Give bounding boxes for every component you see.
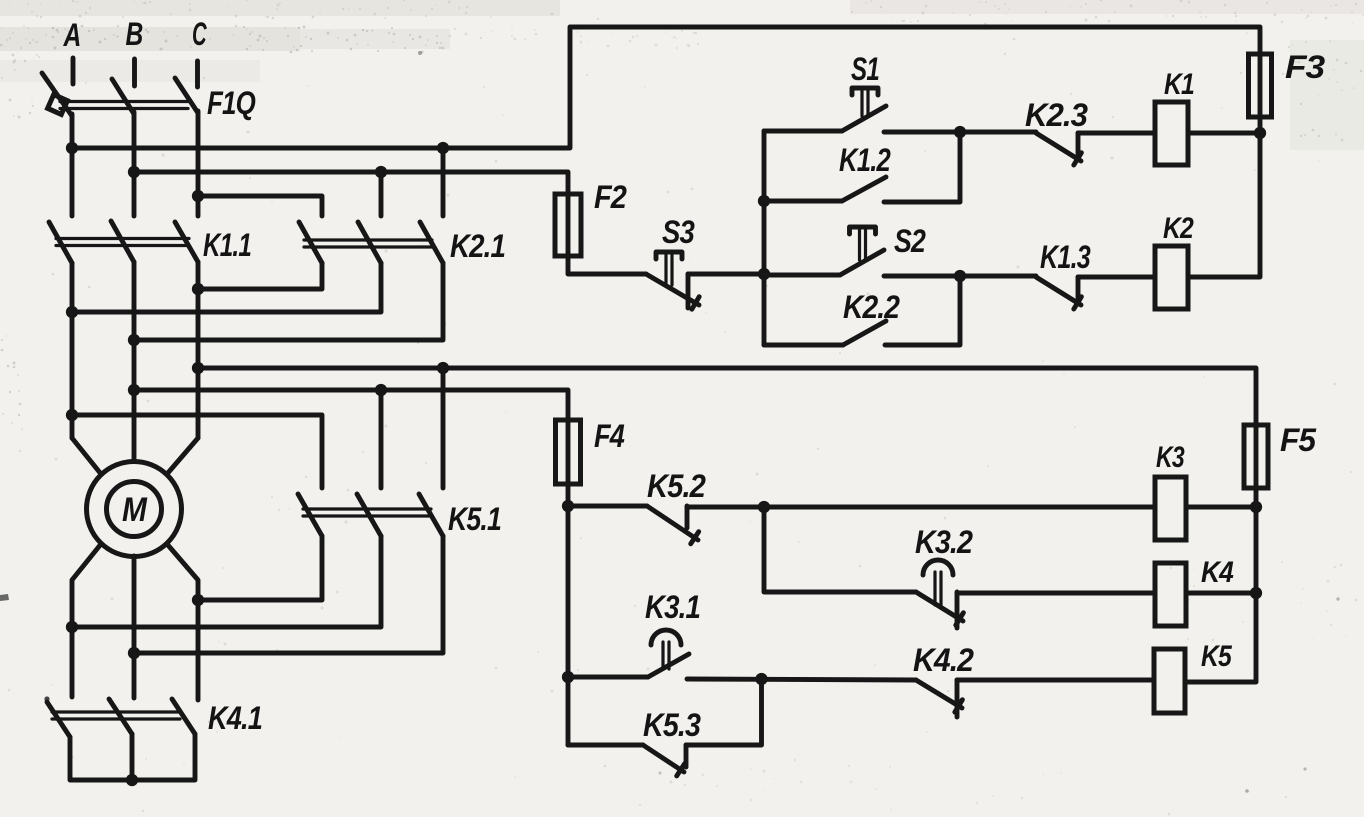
junction B line / K5.1 pole2 feed bbox=[375, 384, 387, 396]
contactor K1.1 pole B blade bbox=[111, 221, 134, 262]
node S1-K1.2 branch bbox=[758, 195, 770, 207]
wire K4 to right rail bbox=[1186, 591, 1256, 596]
contactor K5.1 linkage bar bbox=[303, 509, 431, 516]
wire branch node vertical bbox=[762, 131, 767, 345]
phase label C bbox=[192, 16, 207, 52]
wire K4.1 pole B bottom bbox=[130, 734, 135, 780]
junction K5.1 pole3 / motor B bbox=[128, 647, 140, 659]
svg-text:K3.1: K3.1 bbox=[645, 589, 700, 625]
pushbutton S2 blade (NO) bbox=[840, 250, 884, 275]
contactor K4.1 pole A blade bbox=[47, 702, 70, 737]
label F2 bbox=[594, 179, 627, 215]
disconnect switch F1Q linkage bar bbox=[60, 102, 188, 109]
junction C / lower bus bbox=[192, 362, 204, 374]
label S2 bbox=[894, 223, 926, 259]
contact K3.2 fixed stub bbox=[955, 592, 960, 628]
wire K5.1 pole2 output to motor A bbox=[72, 536, 381, 627]
label K2 bbox=[1163, 212, 1194, 245]
motor M inner circle bbox=[107, 482, 162, 537]
phase A terminal lead bbox=[71, 58, 76, 84]
pushbutton S3 fixed stub bbox=[686, 274, 691, 308]
svg-text:F3: F3 bbox=[1285, 49, 1325, 85]
wire right rail down to K2 bbox=[1188, 117, 1260, 277]
wire K4.1 star bridge bbox=[70, 734, 195, 780]
contact K5.3 fixed stub bbox=[684, 745, 689, 767]
svg-text:F5: F5 bbox=[1280, 422, 1317, 458]
wire phase A bus to top rail bbox=[72, 27, 1260, 148]
svg-text:A: A bbox=[63, 17, 81, 53]
wire K5.1 pole3 output to motor B bbox=[134, 536, 443, 653]
coil K5 bbox=[1154, 649, 1185, 713]
label K3.1 bbox=[645, 589, 700, 625]
contact K4.2 blade (NC) bbox=[916, 680, 962, 712]
svg-text:B: B bbox=[126, 16, 143, 52]
wire node to K1.2 bbox=[764, 199, 842, 204]
junction S1 / K1.2 loop bbox=[954, 126, 966, 138]
wire S1 to K2.3 line bbox=[884, 130, 1036, 135]
label S3 bbox=[662, 214, 695, 250]
wire K5.1 pole2 top lead bbox=[379, 390, 384, 488]
junction K4.1 star point bbox=[126, 774, 138, 786]
contactor K4.1 linkage bar bbox=[52, 712, 180, 719]
svg-text:K2.3: K2.3 bbox=[1025, 97, 1088, 133]
wire lower rail down bbox=[1185, 488, 1256, 682]
contact K2.3 blade (NC) bbox=[1036, 133, 1081, 165]
fuse F5 bbox=[1244, 425, 1268, 488]
motor letter M bbox=[122, 491, 147, 529]
contact K3.2 blade (NC, time delay) bbox=[916, 592, 963, 625]
label F5 bbox=[1280, 422, 1317, 458]
svg-text:C: C bbox=[192, 16, 207, 52]
label K5 bbox=[1201, 640, 1233, 673]
contactor K5.1 pole3 blade bbox=[419, 494, 443, 536]
svg-text:K5: K5 bbox=[1201, 640, 1233, 673]
label K5.1 bbox=[448, 501, 501, 537]
label K5.3 bbox=[643, 707, 701, 743]
svg-text:K5.3: K5.3 bbox=[643, 707, 701, 743]
motor M outer circle bbox=[87, 462, 182, 557]
wire K1.2 to loop top bbox=[884, 132, 960, 202]
wire phase B down bbox=[132, 112, 137, 216]
wire phase B output down bbox=[132, 262, 137, 461]
contactor K2.1 pole1 blade bbox=[299, 222, 322, 263]
label K1.2 bbox=[839, 142, 891, 178]
wire K4.2 to coil K5 bbox=[957, 678, 1154, 683]
contactor K4.1 pole B blade bbox=[109, 699, 132, 734]
phase label A bbox=[63, 17, 81, 53]
contact K5.3 blade (NC) bbox=[643, 745, 685, 776]
contactor K2.1 pole3 blade bbox=[420, 222, 443, 263]
contactor K4.1 pole C blade bbox=[172, 699, 195, 734]
svg-text:K5.2: K5.2 bbox=[647, 468, 706, 504]
pushbutton S2 actuator bbox=[850, 227, 876, 260]
junction A bus / K2.1 pole3 feed bbox=[437, 142, 449, 154]
junction B / F4 feed bbox=[128, 384, 140, 396]
disconnect switch F1Q pole C blade bbox=[175, 78, 198, 113]
wire motor terminal C bottom bbox=[167, 544, 198, 700]
junction phase B bus bbox=[128, 166, 140, 178]
svg-text:S1: S1 bbox=[851, 51, 879, 87]
contact K2.3 fixed stub bbox=[1076, 133, 1081, 154]
wire K5.3 loop right bbox=[686, 679, 762, 745]
wire S3 to node bbox=[688, 272, 764, 277]
svg-text:S3: S3 bbox=[662, 214, 695, 250]
label F3 bbox=[1285, 49, 1325, 85]
wire K2.1 pole3 top lead bbox=[441, 148, 446, 216]
fuse F2 bbox=[555, 194, 581, 256]
wire K1 to right rail bbox=[1188, 131, 1260, 136]
contactor K5.1 pole1 blade bbox=[298, 494, 322, 536]
disconnect switch F1Q pole A blade bbox=[42, 73, 72, 116]
svg-text:K2: K2 bbox=[1163, 212, 1194, 245]
wire K5.2 to coil K3 bbox=[687, 505, 1155, 510]
svg-text:M: M bbox=[122, 491, 147, 529]
wire phase A output down bbox=[70, 263, 75, 438]
pushbutton S1 actuator bbox=[852, 88, 878, 116]
disconnect switch F1Q handle bbox=[48, 95, 68, 115]
wire phase A down bbox=[70, 114, 75, 216]
label K3 bbox=[1156, 441, 1185, 474]
wire K3.1 to K4.2 bbox=[687, 679, 916, 680]
phase label B bbox=[126, 16, 143, 52]
coil K3 bbox=[1155, 477, 1186, 540]
svg-text:K1.1: K1.1 bbox=[203, 227, 251, 263]
junction K5.1 pole1 / motor C bbox=[192, 594, 204, 606]
pushbutton S3 actuator bbox=[656, 252, 682, 285]
coil K4 bbox=[1155, 563, 1186, 626]
fuse F3 bbox=[1249, 54, 1272, 117]
wire K5.1 pole3 top lead bbox=[441, 368, 446, 488]
junction lower rail / K4 bbox=[1250, 587, 1262, 599]
label F4 bbox=[594, 418, 625, 454]
junction K2.1 pole3 / phase B bbox=[128, 334, 140, 346]
junction phase A bus bbox=[66, 142, 78, 154]
contact K5.2 blade (NC) bbox=[647, 506, 699, 544]
wire phase C output down bbox=[196, 262, 201, 438]
junction K2.1 pole1 / phase C bbox=[192, 283, 204, 295]
wire motor terminal A bottom bbox=[72, 544, 101, 697]
label K4.1 bbox=[208, 700, 262, 736]
junction A / lower feed bbox=[66, 409, 78, 421]
svg-text:K2.2: K2.2 bbox=[843, 289, 900, 325]
svg-text:K5.1: K5.1 bbox=[448, 501, 501, 537]
contactor K5.1 pole2 blade bbox=[357, 494, 381, 536]
contact K5.2 fixed stub bbox=[685, 506, 690, 528]
wire A to K5.1 pole1 bbox=[72, 415, 322, 488]
wire K2.1 pole3 output to phase B bbox=[134, 263, 443, 340]
contactor K1.1 pole C blade bbox=[175, 222, 198, 262]
contact K4.2 fixed stub bbox=[955, 680, 960, 717]
coil K1 bbox=[1155, 102, 1188, 165]
junction B bus / K2.1 pole2 feed bbox=[375, 166, 387, 178]
label K1.3 bbox=[1040, 239, 1091, 275]
wire phase C to K2.1 pole1 bbox=[198, 196, 322, 216]
svg-text:S2: S2 bbox=[894, 223, 926, 259]
wire S2 to K1.3 line bbox=[884, 274, 1036, 279]
junction K5.1 pole2 / motor A bbox=[66, 621, 78, 633]
wire node to K3.1 bbox=[568, 675, 648, 680]
node F4 / K5.2 line bbox=[562, 500, 574, 512]
junction S2 / K2.2 loop bbox=[954, 270, 966, 282]
svg-text:F1Q: F1Q bbox=[207, 85, 256, 121]
wire F4 down node vertical bbox=[566, 484, 571, 745]
wire B to fuse F4 bbox=[134, 390, 568, 420]
label S1 bbox=[851, 51, 879, 87]
svg-text:K1.2: K1.2 bbox=[839, 142, 891, 178]
label K4 bbox=[1201, 556, 1234, 589]
wire K3 to right rail bbox=[1186, 505, 1256, 510]
svg-text:K1.3: K1.3 bbox=[1040, 239, 1091, 275]
contact K1.3 fixed stub bbox=[1076, 277, 1081, 298]
junction lower bus / K5.1 pole3 bbox=[437, 362, 449, 374]
wire K2.3 to coil K1 bbox=[1078, 131, 1155, 136]
disconnect switch F1Q pole B blade bbox=[112, 79, 134, 114]
svg-text:K4.1: K4.1 bbox=[208, 700, 262, 736]
label K1 bbox=[1164, 68, 1194, 101]
junction K3.1 line / K5.3 loop bbox=[755, 673, 767, 685]
pushbutton S1 blade (NO) bbox=[842, 106, 886, 131]
contactor K1.1 linkage bar bbox=[56, 239, 189, 246]
svg-text:K4: K4 bbox=[1201, 556, 1234, 589]
wire node to K5.2 bbox=[568, 504, 647, 509]
contactor K2.1 pole2 blade bbox=[358, 222, 381, 263]
wire F2 to S3 bbox=[568, 256, 646, 274]
wire K1.3 to coil K2 bbox=[1078, 275, 1155, 280]
wire phase B bus to fuse F2 bbox=[134, 172, 568, 194]
wire K2.1 pole2 output to phase A bbox=[72, 263, 381, 312]
wire lower bus C to fuse F5 bbox=[198, 368, 1256, 425]
junction phase C tap bbox=[192, 190, 204, 202]
wire node to S1 bbox=[764, 129, 842, 134]
label F1Q bbox=[207, 85, 256, 121]
svg-text:F4: F4 bbox=[594, 418, 625, 454]
pushbutton S3 blade (NC) bbox=[646, 274, 699, 309]
node K3.1 line bbox=[562, 671, 574, 683]
junction lower rail / K3 bbox=[1250, 501, 1262, 513]
label K2.3 bbox=[1025, 97, 1088, 133]
wire K2.1 pole2 top lead bbox=[379, 172, 384, 216]
contactor K2.1 linkage bar bbox=[304, 240, 432, 247]
wire K5.3 loop left bbox=[568, 743, 643, 748]
svg-text:K1: K1 bbox=[1164, 68, 1194, 101]
wire phase C down bbox=[196, 111, 201, 216]
label K1.1 bbox=[203, 227, 251, 263]
contactor K1.1 pole A blade bbox=[49, 222, 72, 263]
coil K2 bbox=[1155, 246, 1188, 309]
junction right rail / K1 bbox=[1254, 127, 1266, 139]
contact K2.2 blade (NO) bbox=[843, 321, 886, 345]
label K3.2 bbox=[915, 524, 973, 560]
node S2 line bbox=[758, 268, 770, 280]
wire K2.1 pole1 output to phase C bbox=[198, 263, 322, 289]
phase B terminal lead bbox=[132, 59, 137, 86]
svg-text:K3.2: K3.2 bbox=[915, 524, 973, 560]
svg-text:K3: K3 bbox=[1156, 441, 1185, 474]
wire node to S2 bbox=[764, 273, 840, 278]
wire motor terminal A top bbox=[72, 438, 101, 474]
label K4.2 bbox=[913, 642, 974, 678]
label K2.2 bbox=[843, 289, 900, 325]
label K5.2 bbox=[647, 468, 706, 504]
wire K2.2 to loop top bbox=[885, 276, 960, 345]
junction K5.2 line / K3.2 branch bbox=[758, 501, 770, 513]
svg-text:K2.1: K2.1 bbox=[450, 228, 505, 264]
contact K1.2 blade (NO) bbox=[842, 177, 886, 201]
contact K3.1 blade (NO, time delay) bbox=[648, 654, 689, 677]
svg-text:K4.2: K4.2 bbox=[913, 642, 974, 678]
contact K3.1 delay symbol bbox=[651, 630, 681, 669]
wire K3.2 branch bbox=[764, 507, 916, 592]
svg-text:F2: F2 bbox=[594, 179, 627, 215]
phase C terminal lead bbox=[195, 61, 200, 87]
wire node to K2.2 bbox=[764, 343, 843, 348]
wire motor terminal B bottom bbox=[132, 556, 137, 698]
wire motor terminal C top bbox=[167, 438, 198, 474]
fuse F4 bbox=[556, 420, 581, 484]
contact K1.3 blade (NC) bbox=[1036, 277, 1081, 309]
label K2.1 bbox=[450, 228, 505, 264]
wire K5.1 pole1 output to motor C bbox=[198, 536, 322, 600]
contact K3.2 delay symbol bbox=[923, 560, 953, 607]
junction K2.1 pole2 / phase A bbox=[66, 306, 78, 318]
wire K3.2 to coil K4 bbox=[957, 591, 1155, 596]
